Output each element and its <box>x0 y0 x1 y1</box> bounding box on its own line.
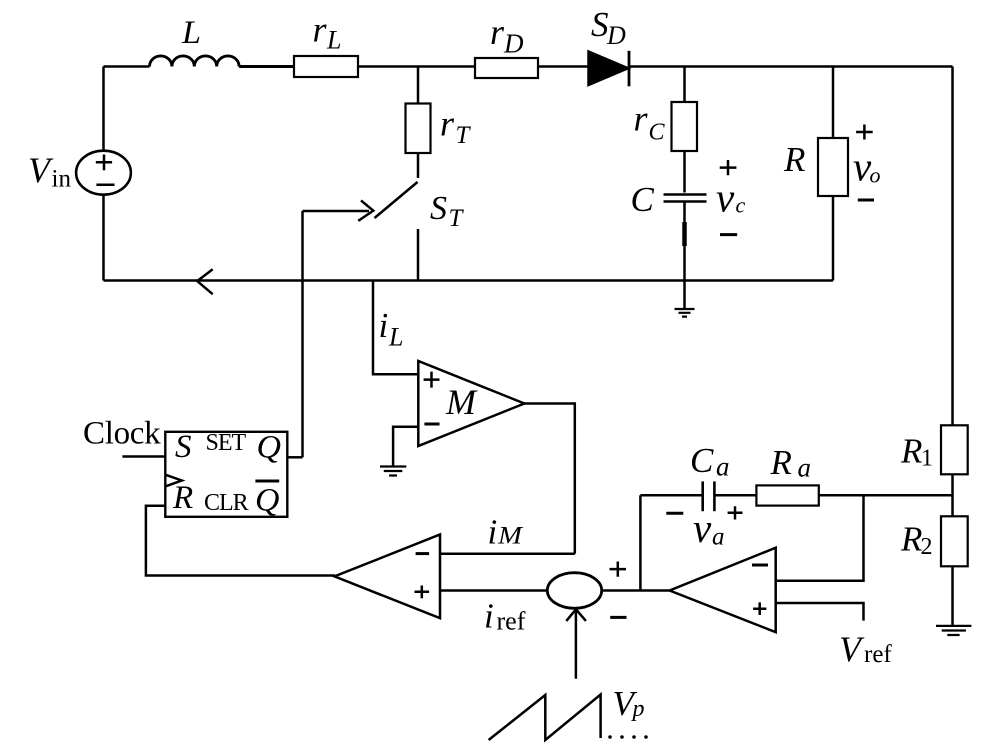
comparator U2 <box>335 535 441 619</box>
wire M minus input <box>393 427 418 466</box>
wire feedback to Ca <box>640 494 702 497</box>
label Qbar <box>255 481 280 519</box>
svg-text:D: D <box>503 28 524 58</box>
ground at M <box>380 467 406 476</box>
label plus vo <box>856 125 873 140</box>
wire M output <box>524 404 574 554</box>
label M minus input <box>424 423 439 426</box>
label Ra <box>770 443 812 483</box>
svg-text:r: r <box>313 10 328 50</box>
label summing minus <box>610 616 626 619</box>
resistor R1 <box>941 425 968 516</box>
ground below C <box>675 281 695 317</box>
label ST <box>430 190 465 232</box>
svg-text:S: S <box>591 5 609 44</box>
wire comparator plus input <box>440 589 547 592</box>
svg-text:S: S <box>430 190 447 227</box>
svg-text:R: R <box>172 480 193 516</box>
resistor Ra <box>756 485 818 505</box>
capacitor C <box>664 195 707 281</box>
label Vp <box>613 684 645 723</box>
svg-text:L: L <box>181 15 201 51</box>
svg-text:ref: ref <box>497 607 526 636</box>
label R2 <box>900 520 933 561</box>
wire error amp minus input <box>776 495 864 581</box>
svg-text:M: M <box>497 523 524 550</box>
clock wedge <box>165 475 182 487</box>
label Vref <box>839 629 892 669</box>
sawtooth source Vp <box>489 695 601 741</box>
wire top rail left segment <box>104 65 150 68</box>
capacitor Ca <box>703 481 757 511</box>
svg-text:p: p <box>631 696 645 722</box>
wire feedback vertical <box>639 495 642 590</box>
label iL <box>379 306 404 352</box>
label SD <box>591 5 626 50</box>
svg-text:r: r <box>634 99 649 139</box>
svg-text:Q: Q <box>257 430 282 466</box>
svg-text:in: in <box>52 166 72 193</box>
label minus vc <box>720 233 737 236</box>
wire rD to diode <box>538 65 589 68</box>
wire iL sense <box>373 281 418 375</box>
label summing plus <box>610 562 627 577</box>
svg-text:T: T <box>456 122 472 149</box>
wire right edge down to R1 <box>951 67 954 426</box>
svg-text:M: M <box>445 382 478 422</box>
svg-text:1: 1 <box>921 445 933 471</box>
label comparator plus input <box>415 586 430 599</box>
svg-text:Q: Q <box>255 483 280 519</box>
label iref <box>484 597 526 636</box>
flip-flop U1 <box>165 432 287 517</box>
wire summing to error amp <box>602 589 670 592</box>
label vc <box>716 175 746 221</box>
svg-text:r: r <box>490 12 505 52</box>
svg-text:D: D <box>606 21 626 50</box>
svg-text:R: R <box>900 432 922 471</box>
wire bottom rail arrow <box>197 269 213 294</box>
label rT <box>440 104 472 150</box>
wire R input from comparator <box>146 506 335 576</box>
label va <box>693 505 725 551</box>
label minus vo <box>858 199 874 202</box>
source Vin <box>76 67 131 281</box>
svg-text:2: 2 <box>921 534 933 560</box>
label vo <box>853 143 881 189</box>
svg-text:SET: SET <box>206 430 247 456</box>
label plus vc <box>720 160 737 175</box>
resistor rL <box>294 56 358 77</box>
svg-text:r: r <box>440 104 455 144</box>
wire node to rT <box>417 67 420 104</box>
label rC <box>634 99 666 146</box>
label rL <box>313 10 342 55</box>
svg-text:ref: ref <box>864 641 892 668</box>
wire sawtooth arrow into summing <box>566 609 586 679</box>
svg-text:V: V <box>839 629 865 669</box>
op-amp M <box>418 361 524 446</box>
wire Ra to divider node <box>819 494 953 497</box>
diode SD <box>589 51 630 87</box>
resistor R2 <box>941 516 968 625</box>
svg-text:i: i <box>488 513 498 552</box>
label minus va <box>666 512 683 515</box>
ground below R2 <box>936 626 971 635</box>
dots below Vp <box>608 735 648 739</box>
svg-text:i: i <box>379 306 389 345</box>
svg-text:v: v <box>693 505 712 551</box>
wire top rail right segment <box>629 65 953 68</box>
svg-text:R: R <box>783 140 805 179</box>
svg-text:R: R <box>770 443 792 482</box>
label rD <box>490 12 524 58</box>
wire control vertical to Q output <box>301 211 304 457</box>
svg-text:C: C <box>649 120 666 146</box>
switch ST <box>375 153 419 281</box>
svg-text:CLR: CLR <box>204 490 249 516</box>
op-amp error amplifier <box>670 548 776 633</box>
svg-text:o: o <box>870 163 881 188</box>
label error amp plus input <box>753 602 766 615</box>
svg-text:C: C <box>631 180 655 219</box>
resistor R <box>818 67 848 281</box>
wire bottom rail <box>104 279 834 282</box>
resistor rC <box>672 67 698 193</box>
svg-text:L: L <box>388 323 403 352</box>
wire error amp plus input to Vref <box>776 603 864 621</box>
svg-text:a: a <box>798 453 812 483</box>
label error amp minus input <box>752 564 768 567</box>
resistor rD <box>475 58 538 78</box>
wire switch control arrow <box>303 200 374 221</box>
svg-text:R: R <box>900 520 922 559</box>
wire Q output <box>287 456 302 459</box>
svg-text:C: C <box>690 441 714 480</box>
svg-text:T: T <box>449 205 465 232</box>
wire rL to rD <box>358 65 475 68</box>
resistor rT <box>406 104 431 154</box>
svg-text:c: c <box>736 193 746 218</box>
summing junction node <box>547 573 601 609</box>
svg-text:v: v <box>716 175 735 221</box>
svg-text:a: a <box>716 452 730 482</box>
wire iM <box>440 553 575 556</box>
svg-text:a: a <box>712 524 725 551</box>
wire clock input S <box>122 455 165 458</box>
label Vin <box>28 150 71 193</box>
label comparator minus input <box>416 552 430 555</box>
label M plus input <box>424 372 440 388</box>
label iM <box>488 513 524 552</box>
svg-text:S: S <box>175 429 192 465</box>
svg-text:i: i <box>484 597 494 636</box>
inductor L <box>150 56 295 67</box>
label plus va <box>728 506 743 519</box>
svg-text:V: V <box>28 150 54 190</box>
svg-text:Clock: Clock <box>83 416 161 452</box>
label Ca <box>690 441 730 482</box>
svg-text:L: L <box>326 26 341 55</box>
label R1 <box>900 432 933 472</box>
